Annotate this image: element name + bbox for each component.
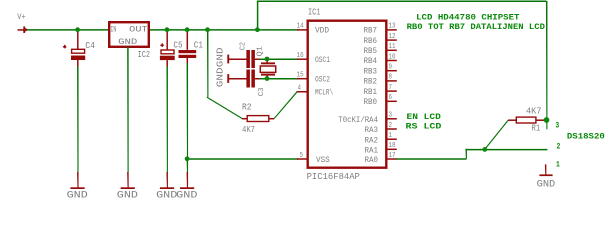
svg-text:GND: GND bbox=[156, 190, 177, 201]
svg-text:RA2: RA2 bbox=[365, 136, 379, 145]
svg-text:15: 15 bbox=[297, 72, 304, 80]
pin 5 VSS bbox=[297, 158, 307, 160]
svg-text:7: 7 bbox=[389, 84, 393, 92]
wire R2 right diagonal to MCLR bbox=[274, 91, 298, 119]
svg-text:14: 14 bbox=[297, 23, 305, 31]
junction VDD-toprail bbox=[255, 27, 260, 32]
svg-text:13: 13 bbox=[389, 23, 396, 31]
junction VDD-C4 bbox=[75, 27, 80, 32]
svg-text:12: 12 bbox=[389, 33, 396, 41]
pin 1 RA2 bbox=[387, 138, 397, 140]
svg-text:RB3: RB3 bbox=[364, 67, 378, 76]
junction VDD-R2 bbox=[205, 27, 210, 32]
svg-text:GND: GND bbox=[67, 190, 88, 201]
wire V+ branch up to top rail bbox=[257, 1, 259, 30]
pin 17 RA0 bbox=[387, 158, 397, 160]
wire top rail down to R1/pin3 bbox=[546, 1, 548, 129]
wire VSS junction to GND bbox=[187, 159, 189, 172]
svg-text:5: 5 bbox=[300, 152, 304, 160]
pin 7 RB1 bbox=[387, 90, 397, 92]
svg-text:GND: GND bbox=[118, 37, 137, 47]
svg-text:10: 10 bbox=[389, 53, 396, 61]
svg-text:4: 4 bbox=[298, 85, 302, 93]
wire C1 down to VSS net bbox=[187, 63, 189, 159]
junction R1-V+-pin3 bbox=[544, 117, 550, 123]
junction OSC1-Q1 bbox=[265, 57, 270, 62]
svg-text:C5: C5 bbox=[173, 40, 182, 50]
capacitor C5 bbox=[166, 31, 168, 50]
svg-text:1: 1 bbox=[556, 160, 560, 170]
svg-text:4K7: 4K7 bbox=[242, 125, 255, 135]
resistor R1 bbox=[508, 119, 516, 121]
svg-text:GND: GND bbox=[537, 180, 556, 191]
pin 13 RB7 bbox=[387, 29, 397, 31]
junction VDD-C1 bbox=[185, 27, 190, 32]
svg-text:2: 2 bbox=[389, 122, 393, 130]
svg-text:RB6: RB6 bbox=[364, 37, 378, 46]
svg-text:IC2: IC2 bbox=[138, 50, 150, 60]
pin 11 RB5 bbox=[387, 50, 397, 52]
svg-text:C3: C3 bbox=[258, 87, 266, 96]
svg-text:17: 17 bbox=[389, 152, 396, 160]
ground GND4 (C1/VSS) bbox=[187, 172, 189, 188]
svg-text:OSC1: OSC1 bbox=[315, 56, 330, 65]
svg-text:R1: R1 bbox=[532, 123, 541, 133]
pin 9 RB3 bbox=[387, 70, 397, 72]
svg-text:Q1: Q1 bbox=[256, 45, 264, 56]
IC1 PIC16F84AP box bbox=[308, 21, 387, 168]
svg-text:18: 18 bbox=[389, 142, 396, 150]
ground bar (rotated) for C3 bbox=[227, 74, 229, 83]
supply symbol V+ arrow bbox=[18, 29, 24, 31]
svg-text:GND: GND bbox=[215, 47, 225, 67]
svg-text:RB4: RB4 bbox=[364, 57, 378, 66]
pin 6 RB0 bbox=[387, 101, 397, 103]
svg-text:EN LCD: EN LCD bbox=[407, 112, 441, 122]
svg-text:IC1: IC1 bbox=[308, 7, 320, 17]
junction VSS-C1-GND bbox=[185, 156, 190, 161]
svg-text:OUT: OUT bbox=[129, 25, 147, 35]
capacitor C2 bbox=[229, 58, 247, 60]
svg-text:3: 3 bbox=[555, 121, 559, 131]
wire RA0 to 1-wire net bbox=[397, 158, 467, 160]
wire OSC1 bbox=[260, 58, 299, 60]
capacitor C3 bbox=[229, 78, 247, 80]
svg-text:RB5: RB5 bbox=[364, 47, 378, 56]
pin 15 OSC2 bbox=[297, 78, 307, 80]
svg-text:C4: C4 bbox=[85, 41, 95, 51]
svg-text:GND: GND bbox=[176, 190, 197, 201]
svg-text:V+: V+ bbox=[17, 12, 25, 22]
svg-text:T0cKI/RA4: T0cKI/RA4 bbox=[338, 116, 378, 125]
svg-text:RA1: RA1 bbox=[365, 147, 379, 156]
svg-text:RB2: RB2 bbox=[364, 78, 378, 87]
wire diagonal junction to R1 bbox=[484, 120, 508, 150]
svg-text:8: 8 bbox=[389, 74, 393, 82]
svg-text:DS18S20: DS18S20 bbox=[567, 132, 605, 142]
capacitor C4 bbox=[77, 31, 79, 49]
ground GND1 (C4) bbox=[77, 172, 79, 188]
svg-text:RB1: RB1 bbox=[364, 88, 378, 97]
junction 1wire-R1 bbox=[482, 147, 487, 152]
wire diagonal to R2 left bbox=[207, 97, 243, 119]
ground GND3 (C5) bbox=[166, 172, 168, 188]
svg-text:OSC2: OSC2 bbox=[315, 75, 330, 84]
svg-text:MCLR\: MCLR\ bbox=[315, 89, 333, 98]
wire OSC2 bbox=[260, 78, 299, 80]
svg-text:RB0: RB0 bbox=[364, 98, 378, 107]
svg-text:9: 9 bbox=[389, 64, 393, 72]
pin 18 RA1 bbox=[387, 149, 397, 151]
pin 10 RB4 bbox=[387, 60, 397, 62]
svg-text:VSS: VSS bbox=[316, 156, 330, 165]
svg-text:RA3: RA3 bbox=[365, 126, 379, 135]
ground bar (rotated) for C2 bbox=[227, 55, 229, 64]
svg-text:RB0 TOT RB7 DATALIJNEN LCD: RB0 TOT RB7 DATALIJNEN LCD bbox=[407, 22, 545, 32]
crystal Q1 bbox=[266, 59, 268, 63]
wire IC2 GND pin down bbox=[127, 47, 128, 172]
wire VDD junction down to R2 bbox=[207, 30, 209, 97]
svg-text:4K7: 4K7 bbox=[526, 107, 542, 117]
resistor R2 bbox=[242, 118, 247, 120]
svg-text:2: 2 bbox=[557, 141, 561, 151]
voltage regulator IC2 bbox=[109, 22, 149, 47]
pin 14 VDD bbox=[297, 29, 307, 31]
svg-text:16: 16 bbox=[297, 52, 304, 60]
svg-text:RS LCD: RS LCD bbox=[406, 122, 442, 132]
svg-text:LCD HD44780 CHIPSET: LCD HD44780 CHIPSET bbox=[416, 13, 519, 23]
svg-text:C1: C1 bbox=[194, 40, 203, 50]
svg-text:R2: R2 bbox=[242, 103, 252, 113]
svg-text:GND: GND bbox=[215, 67, 225, 87]
wire C5 to GND bbox=[166, 66, 168, 172]
wire top rail bbox=[257, 1, 547, 3]
svg-text:1: 1 bbox=[389, 132, 393, 140]
pin 12 RB6 bbox=[387, 39, 397, 41]
svg-text:IN: IN bbox=[110, 26, 116, 34]
svg-text:3: 3 bbox=[389, 112, 393, 120]
junction VDD-C5 bbox=[165, 27, 170, 32]
svg-text:RA0: RA0 bbox=[365, 156, 379, 165]
svg-text:PIC16F84AP: PIC16F84AP bbox=[307, 172, 360, 182]
pin 2 RA3 bbox=[387, 128, 397, 130]
svg-text:C2: C2 bbox=[239, 42, 247, 50]
wire V+ rail to IC2 IN bbox=[27, 29, 109, 31]
svg-text:RB7: RB7 bbox=[364, 27, 378, 36]
svg-text:11: 11 bbox=[389, 43, 397, 51]
pin 16 OSC1 bbox=[297, 58, 307, 60]
ground GND5 (connector pin1) bbox=[545, 164, 547, 174]
wire VSS net to IC1 pin5 bbox=[187, 158, 298, 160]
svg-text:VDD: VDD bbox=[315, 27, 329, 36]
pin 4 MCLR bbox=[297, 91, 307, 93]
capacitor C1 bbox=[187, 31, 189, 50]
wire IC2 OUT rail to IC1 VDD bbox=[150, 29, 299, 31]
svg-text:6: 6 bbox=[389, 94, 393, 102]
ground GND2 (IC2) bbox=[127, 172, 128, 188]
svg-text:GND: GND bbox=[117, 190, 138, 201]
junction OSC2-Q1 bbox=[265, 76, 270, 81]
pin 8 RB2 bbox=[387, 80, 397, 82]
wire C4 to GND bbox=[77, 67, 79, 173]
pin 3 RA4 bbox=[387, 118, 397, 120]
